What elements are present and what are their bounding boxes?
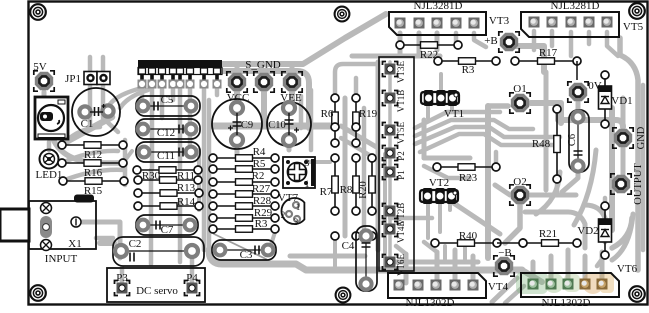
label VT3 bbox=[489, 15, 510, 27]
svg-text:5V: 5V bbox=[33, 61, 47, 73]
svg-text:R23: R23 bbox=[459, 172, 478, 184]
wire X1 right bbox=[76, 222, 120, 258]
svg-text:R17: R17 bbox=[539, 47, 558, 59]
svg-text:INPUT: INPUT bbox=[45, 253, 78, 265]
svg-text:P2: P2 bbox=[396, 151, 406, 161]
capacitor C4 bbox=[356, 226, 377, 291]
label R19 bbox=[359, 108, 378, 120]
wire O1 band right bbox=[531, 103, 623, 127]
label VT7 pin1 bbox=[305, 180, 310, 190]
wire x335 to band bbox=[333, 236, 337, 266]
capacitor C2 bbox=[113, 237, 204, 266]
resistor R20 bbox=[368, 154, 376, 215]
connector VT6 pads bbox=[528, 279, 608, 290]
svg-text:LED1: LED1 bbox=[36, 169, 63, 181]
wire band y218 bbox=[390, 216, 432, 221]
pad VT4E bbox=[383, 222, 398, 237]
svg-text:X1: X1 bbox=[68, 238, 81, 250]
wire header arc left2 bbox=[110, 88, 142, 104]
wire header pin7 drop bbox=[202, 88, 207, 250]
wire GND up bbox=[621, 98, 626, 128]
svg-text:R13: R13 bbox=[177, 182, 196, 194]
resistor R27 bbox=[209, 190, 279, 198]
wire VEE drop bbox=[289, 92, 295, 104]
svg-text:VT6E: VT6E bbox=[396, 254, 406, 276]
svg-text:O2: O2 bbox=[513, 176, 526, 188]
label P1 bbox=[396, 170, 406, 180]
wire col x345 bbox=[343, 98, 348, 236]
mounting hole top-right bbox=[629, 3, 645, 19]
wire conn1 pad drops bbox=[400, 33, 437, 56]
svg-text:R7: R7 bbox=[320, 186, 333, 198]
wire VD2 tail bbox=[597, 255, 605, 266]
wire x199 vertical bbox=[197, 150, 201, 210]
label C10 bbox=[268, 120, 286, 131]
mounting hole top-left bbox=[30, 4, 46, 20]
resistor R13 bbox=[134, 189, 203, 197]
svg-text:P3: P3 bbox=[116, 272, 128, 284]
svg-text:VT3: VT3 bbox=[489, 15, 510, 27]
connector VT3 NJL3281D outline bbox=[389, 12, 486, 35]
label C1 bbox=[81, 118, 94, 130]
label VT4E bbox=[396, 221, 406, 243]
label R13 bbox=[177, 182, 196, 194]
resistor R3 bbox=[209, 225, 279, 233]
transistor VT7 TO-92 bbox=[281, 198, 304, 224]
resistor R16 bbox=[58, 159, 127, 167]
label R21 bbox=[539, 228, 557, 240]
resistor R14 bbox=[134, 202, 203, 210]
label O2 bbox=[513, 176, 526, 188]
capacitor C12 bbox=[136, 119, 200, 139]
resistor R11 bbox=[134, 176, 202, 184]
svg-text:3: 3 bbox=[294, 217, 299, 227]
svg-text:C10: C10 bbox=[268, 120, 286, 131]
wire conn1 merge bbox=[352, 54, 440, 59]
svg-text:VT2: VT2 bbox=[429, 177, 449, 189]
pad VT2B bbox=[383, 204, 398, 219]
label R17 bbox=[539, 47, 558, 59]
label VD1 bbox=[611, 95, 632, 107]
mounting hole bottom-right bbox=[629, 286, 645, 302]
label VCC bbox=[227, 92, 250, 104]
wire S_GND drop bbox=[261, 92, 267, 124]
wire R23 right up bbox=[494, 152, 499, 167]
wire JP1 left drop bbox=[88, 85, 93, 126]
label VT5 bbox=[623, 21, 644, 33]
wire br sweep4 bbox=[612, 214, 633, 260]
mounting hole bottom-left bbox=[30, 285, 46, 301]
svg-text:R4: R4 bbox=[253, 146, 266, 158]
svg-text:VT3E: VT3E bbox=[396, 61, 406, 83]
label TO92 pin3 bbox=[294, 217, 299, 227]
svg-text:R40: R40 bbox=[459, 230, 478, 242]
label VT2B bbox=[396, 203, 406, 226]
wire +B right bbox=[512, 46, 544, 72]
label R40 bbox=[459, 230, 478, 242]
label VT1B bbox=[396, 90, 406, 113]
wire br sweep3 bbox=[525, 212, 585, 248]
label R3 bbox=[255, 218, 268, 230]
label VT5E bbox=[396, 122, 406, 144]
wire right of R12 jog bbox=[123, 140, 128, 185]
resistor R19 bbox=[352, 94, 360, 147]
svg-text:VT5: VT5 bbox=[623, 21, 644, 33]
label C2 bbox=[129, 238, 142, 250]
svg-text:VD1: VD1 bbox=[611, 95, 632, 107]
pad X1 bottom bbox=[41, 240, 52, 251]
wire C1 bottom sweep bbox=[52, 136, 123, 163]
label R28 bbox=[253, 195, 272, 207]
pad -B bbox=[494, 256, 514, 276]
label R6 bbox=[321, 108, 334, 120]
svg-text:R48: R48 bbox=[532, 138, 551, 150]
wire band y158 bbox=[424, 156, 470, 161]
capacitor C9 bbox=[212, 99, 262, 149]
label R48 bbox=[532, 138, 551, 150]
svg-text:2: 2 bbox=[281, 210, 286, 220]
wire pot right bbox=[307, 160, 330, 164]
svg-text:R27: R27 bbox=[252, 183, 271, 195]
wire staircase e bbox=[424, 166, 470, 178]
wire VCC up bbox=[235, 64, 240, 72]
capacitor C7 bbox=[136, 215, 198, 235]
connector VT5 NJL3281D outline bbox=[521, 12, 619, 37]
label R12 bbox=[84, 149, 102, 161]
wire C6 bottom left bbox=[562, 168, 578, 192]
node x372 y236 bbox=[368, 232, 376, 240]
svg-text:R11: R11 bbox=[177, 170, 195, 182]
label R8 bbox=[340, 184, 353, 196]
wire header pin5 drop bbox=[178, 88, 183, 168]
label NJL3281D left bbox=[414, 0, 463, 12]
label VD2 bbox=[577, 225, 598, 237]
label R14 bbox=[177, 196, 196, 208]
wire GND to OUTPUT bbox=[621, 148, 626, 174]
svg-text:C4: C4 bbox=[342, 240, 355, 252]
label R22 bbox=[420, 49, 438, 61]
svg-text:R3: R3 bbox=[462, 64, 475, 76]
label P3 bbox=[116, 272, 128, 284]
trimmer VT7 bbox=[283, 157, 315, 188]
wire R48 bottom bbox=[555, 180, 560, 192]
pad 5V bbox=[34, 71, 54, 91]
label GND bbox=[636, 126, 647, 149]
wire left of C6 bbox=[544, 72, 549, 190]
svg-text:GND: GND bbox=[636, 126, 647, 149]
label C5 bbox=[161, 94, 174, 106]
label +B bbox=[484, 35, 498, 47]
pad OUTPUT bbox=[611, 174, 631, 194]
capacitor C3 bbox=[212, 240, 276, 260]
svg-text:C2: C2 bbox=[129, 238, 142, 250]
label R29 bbox=[254, 207, 273, 219]
wire thin diag C3 bbox=[214, 234, 266, 259]
wire right of C10 v2 bbox=[309, 90, 314, 150]
wire VT1 mid up bbox=[439, 74, 443, 92]
wire O2 right bbox=[530, 193, 576, 198]
connector VT6 NJL1302D outline bbox=[521, 273, 619, 297]
svg-text:C1: C1 bbox=[81, 118, 94, 130]
transistor VT2 bbox=[420, 188, 458, 204]
pad VEE bbox=[282, 72, 302, 92]
pad X1 top bbox=[41, 203, 52, 214]
mounting hole top-mid bbox=[335, 7, 350, 22]
svg-text:R8: R8 bbox=[340, 184, 353, 196]
pad O2 bbox=[510, 185, 530, 205]
svg-text:O1: O1 bbox=[513, 83, 526, 95]
wire C6 sweep down bbox=[536, 172, 560, 214]
wire VT1 pads down bbox=[428, 104, 452, 118]
column outline bbox=[379, 57, 414, 271]
wire VEE up bbox=[290, 64, 295, 72]
pad P2 bbox=[383, 146, 398, 161]
label VT6E bbox=[396, 254, 406, 276]
label R16 bbox=[84, 167, 103, 179]
wire VT2 pads down bbox=[428, 202, 450, 238]
wire col left extra vertical bbox=[383, 154, 387, 266]
label VT1 bbox=[444, 108, 464, 120]
svg-text:DC servo: DC servo bbox=[136, 285, 178, 297]
label -B bbox=[498, 247, 512, 259]
wire R15 arc bbox=[62, 170, 125, 181]
resistor R15 bbox=[59, 177, 128, 185]
wire header arc left1 bbox=[120, 90, 148, 108]
label R2 bbox=[252, 170, 265, 182]
wire bl conn diag1 bbox=[396, 246, 406, 254]
wire JP1 up stubs bbox=[90, 57, 103, 71]
label TO92 pin1 bbox=[296, 202, 301, 212]
LED LED1 bbox=[40, 150, 59, 169]
transistor VT1 bbox=[421, 90, 459, 106]
capacitor C6 bbox=[569, 110, 589, 172]
svg-text:JP1: JP1 bbox=[65, 73, 81, 85]
resistor R40 bbox=[431, 239, 501, 247]
wire header pin2 drop bbox=[150, 88, 155, 168]
wire header pin4 drop bbox=[171, 88, 176, 100]
wire C10 bottom bbox=[287, 141, 292, 150]
wire VT1 left band bbox=[422, 120, 427, 158]
wire col x364 bbox=[362, 108, 367, 236]
label P4 bbox=[186, 272, 198, 284]
pad O1 bbox=[510, 93, 530, 113]
wire R40 to R21 bbox=[497, 242, 523, 244]
svg-text:R19: R19 bbox=[359, 108, 378, 120]
wire R16 diag bbox=[123, 151, 132, 163]
wire conn1 pad5 drop bbox=[474, 33, 486, 47]
diode VD1 bbox=[599, 71, 612, 128]
label INPUT bbox=[45, 253, 78, 265]
svg-text:NJL3281D: NJL3281D bbox=[551, 0, 600, 12]
svg-text:−B: −B bbox=[498, 247, 512, 259]
label JP1 bbox=[65, 73, 81, 85]
label NJL3281D right bbox=[551, 0, 600, 12]
svg-text:1: 1 bbox=[296, 202, 301, 212]
wire C2 vertical bbox=[178, 200, 183, 262]
wire C1 thick diagonal bbox=[64, 117, 112, 143]
svg-text:NJL1302D: NJL1302D bbox=[542, 297, 591, 308]
node x335 y127 bbox=[331, 123, 339, 131]
wire C9 bottom bbox=[235, 141, 240, 156]
wire botconn2 drops bbox=[533, 250, 602, 282]
label R3 top bbox=[462, 64, 475, 76]
wire O2 down bbox=[505, 205, 520, 243]
wire botconn1 drops bbox=[406, 250, 473, 283]
capacitor C11 bbox=[136, 142, 200, 162]
label R5 bbox=[253, 158, 266, 170]
connector X1 bbox=[0, 195, 96, 250]
wire right sweep mid bbox=[574, 150, 596, 225]
connector VT3 pads bbox=[395, 18, 480, 29]
wire VCC drop bbox=[234, 92, 240, 104]
wire staircase a bbox=[415, 112, 500, 128]
resistor R30 bbox=[133, 166, 202, 174]
capacitor C5 bbox=[136, 96, 200, 116]
svg-text:1: 1 bbox=[305, 180, 310, 190]
label R11 bbox=[177, 170, 195, 182]
wire R12 arc bbox=[62, 127, 100, 145]
label R15 bbox=[84, 185, 103, 197]
label VT6 bbox=[617, 263, 638, 275]
wire LED drop bbox=[47, 142, 52, 150]
node x356 y127 bbox=[352, 123, 360, 131]
pad P4 bbox=[185, 281, 200, 296]
wire conn1 pad4 drop bbox=[454, 33, 459, 44]
node R40-R21 bbox=[519, 239, 527, 247]
wire R17 to 0V bbox=[576, 61, 578, 80]
wire conn gap diag bbox=[492, 278, 517, 302]
pad VT5E bbox=[383, 123, 398, 138]
wire O2 left diag bbox=[495, 185, 510, 195]
svg-text:OUTPUT: OUTPUT bbox=[633, 163, 644, 205]
wire right of C10 v1 bbox=[299, 96, 304, 128]
label R30 bbox=[142, 170, 161, 182]
pad VT6E bbox=[383, 255, 398, 270]
resistor R22 bbox=[396, 41, 462, 49]
wire OUTPUT left band bbox=[609, 108, 615, 230]
wire vertical mid-left bbox=[207, 100, 212, 252]
svg-text:3: 3 bbox=[305, 159, 310, 169]
svg-text:S_GND: S_GND bbox=[245, 59, 281, 71]
label S_GND bbox=[245, 59, 281, 71]
wire conn2 drops right bbox=[589, 32, 618, 56]
svg-text:C9: C9 bbox=[241, 120, 253, 131]
wire P4 up bbox=[190, 252, 195, 282]
svg-text:C3: C3 bbox=[240, 249, 253, 261]
wire X1 mid bbox=[96, 236, 113, 241]
wire x150 vertical low bbox=[149, 170, 154, 264]
jumper block DC servo bbox=[107, 268, 205, 302]
svg-text:R14: R14 bbox=[177, 196, 196, 208]
capacitor C10 bbox=[267, 102, 311, 146]
wire header to top diagonal bbox=[221, 14, 386, 64]
label X1 bbox=[68, 238, 81, 250]
wire bot band right bbox=[522, 270, 542, 282]
wire diag left-mid b bbox=[341, 138, 371, 156]
pad VCC bbox=[227, 72, 247, 92]
svg-text:R21: R21 bbox=[539, 228, 557, 240]
wire right edge band2 bbox=[641, 85, 646, 250]
pad X1 right bbox=[71, 217, 81, 227]
label VT2 bbox=[429, 177, 449, 189]
wire conn2 drops bbox=[534, 31, 571, 56]
wire staircase c bbox=[415, 127, 560, 144]
wire staircase d bbox=[420, 134, 556, 152]
svg-text:VT1: VT1 bbox=[444, 108, 464, 120]
wire VD2 col bbox=[603, 198, 608, 206]
watermark green blob bbox=[516, 272, 614, 294]
connector VT5 pads bbox=[529, 17, 613, 28]
resistor R21 bbox=[519, 239, 581, 247]
resistor R29 bbox=[209, 214, 279, 222]
pad 0V bbox=[568, 82, 588, 102]
wire br sweep2 bbox=[585, 205, 605, 242]
svg-text:NJL1302D: NJL1302D bbox=[406, 297, 455, 308]
label C7 bbox=[161, 224, 174, 236]
wire R6 top bbox=[335, 64, 378, 95]
wire diag left-mid a bbox=[341, 126, 378, 148]
svg-text:C11: C11 bbox=[157, 150, 175, 162]
resistor R48 bbox=[553, 105, 561, 183]
label C3 bbox=[240, 249, 253, 261]
wire staircase b bbox=[415, 120, 533, 136]
label C9 bbox=[241, 120, 253, 131]
wire vt col vertical bbox=[388, 62, 392, 268]
capacitor C1 bbox=[72, 88, 120, 136]
label NJL1302D left bbox=[406, 297, 455, 309]
svg-text:VT4: VT4 bbox=[488, 281, 509, 293]
wire header bus right bbox=[221, 71, 309, 128]
mounting hole bottom-mid bbox=[336, 288, 351, 303]
connector DC jack X? bbox=[35, 97, 68, 139]
resistor R4 bbox=[209, 154, 279, 162]
label 0V bbox=[588, 80, 602, 92]
node x335 y236 bbox=[331, 232, 339, 240]
pad +B bbox=[499, 32, 519, 52]
svg-text:P4: P4 bbox=[186, 272, 198, 284]
svg-text:VT4E: VT4E bbox=[396, 221, 406, 243]
pad P3 bbox=[115, 281, 130, 296]
svg-text:R2: R2 bbox=[252, 170, 265, 182]
resistor R5 bbox=[209, 165, 279, 173]
wire botconn1 band bbox=[396, 260, 478, 265]
svg-text:VD2: VD2 bbox=[577, 225, 598, 237]
svg-text:R28: R28 bbox=[253, 195, 272, 207]
wire band y256 bbox=[290, 254, 365, 259]
label VEE bbox=[280, 92, 302, 104]
svg-text:R6: R6 bbox=[321, 108, 334, 120]
svg-text:P1: P1 bbox=[396, 170, 406, 180]
wire O1 left stub bbox=[488, 103, 508, 109]
resistor R12 bbox=[58, 141, 127, 149]
label DC servo bbox=[136, 285, 178, 297]
svg-text:R5: R5 bbox=[253, 158, 266, 170]
wire R40 drops bbox=[445, 246, 465, 262]
label VT3E bbox=[396, 61, 406, 83]
wire col x378 bbox=[376, 62, 381, 250]
label C6 bbox=[567, 134, 578, 146]
svg-text:C7: C7 bbox=[161, 224, 174, 236]
wire under C3 long horizontal bbox=[209, 250, 522, 270]
wire center thick vertical bbox=[485, 106, 491, 258]
label VT7 bbox=[278, 192, 299, 204]
svg-text:C5: C5 bbox=[161, 94, 174, 106]
wire header pin drops bbox=[140, 88, 145, 100]
svg-text:C6: C6 bbox=[567, 134, 578, 146]
label TO92 pin2 bbox=[281, 210, 286, 220]
connector header 8-pin bbox=[138, 60, 223, 89]
label VT7 pin3 bbox=[305, 159, 310, 169]
